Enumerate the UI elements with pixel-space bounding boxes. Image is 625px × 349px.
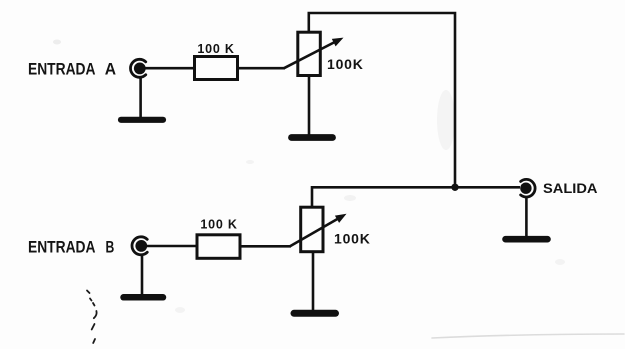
- potentiometer P1 body: [298, 32, 321, 75]
- wire R2 to P2 wiper: [240, 245, 291, 248]
- ground (under J1): [121, 117, 163, 123]
- wire J2 to R2: [146, 245, 198, 248]
- svg-text:100K: 100K: [334, 231, 371, 247]
- svg-text:A: A: [105, 61, 117, 79]
- output jack J3 (SALIDA): [520, 179, 535, 197]
- wire J1 to ground: [139, 76, 142, 118]
- input jack J2 (ENTRADA B): [132, 237, 147, 255]
- wire P2 bottom to ground: [312, 252, 315, 311]
- resistor R2 100K: [197, 235, 240, 258]
- wire J2 to ground: [141, 254, 144, 296]
- wire P2 top to output bus and SALIDA: [312, 187, 520, 207]
- svg-text:ENTRADA: ENTRADA: [28, 61, 96, 79]
- ground (under J2): [124, 294, 164, 301]
- svg-text:100K: 100K: [327, 56, 364, 72]
- ground (under J3): [506, 236, 548, 243]
- wire J3 to ground: [525, 197, 528, 239]
- svg-text:100 K: 100 K: [200, 218, 237, 232]
- svg-text:ENTRADA: ENTRADA: [28, 239, 96, 257]
- label ENTRADA A: [28, 61, 116, 79]
- label ENTRADA B: [28, 239, 114, 257]
- resistor R1 100K: [195, 57, 238, 80]
- wire P1 top to output bus (up, across top, down right side): [309, 13, 455, 187]
- svg-text:B: B: [106, 239, 115, 257]
- input jack J1 (ENTRADA A): [130, 59, 145, 77]
- wire P1 bottom to ground: [308, 76, 311, 137]
- svg-text:SALIDA: SALIDA: [543, 181, 598, 196]
- svg-text:100 K: 100 K: [197, 42, 234, 56]
- ground (under P1): [292, 134, 333, 141]
- ground (under P2): [294, 310, 336, 317]
- potentiometer P2 body: [301, 207, 323, 252]
- wire R1 to P1 wiper: [238, 67, 286, 70]
- potentiometer P2 wiper arrow: [290, 214, 347, 247]
- potentiometer P1 wiper arrow: [284, 38, 344, 69]
- node junction (bus meets output): [451, 184, 458, 191]
- wire J1 to R1: [144, 67, 196, 70]
